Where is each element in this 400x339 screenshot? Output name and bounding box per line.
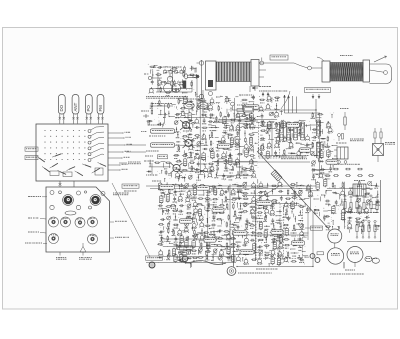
capacitor D245: [191, 217, 196, 222]
FM tuning capacitor knob: [63, 195, 74, 206]
resistor L340: [260, 196, 262, 202]
label ACC PO CADRE: [79, 257, 92, 260]
resistor D467: [374, 225, 380, 229]
wire junction L466: [369, 222, 370, 229]
resistor L424: [251, 259, 257, 261]
resistor L238: [212, 212, 218, 216]
resistor T429: [291, 261, 297, 263]
capacitor R276: [186, 236, 189, 241]
diode R24: [183, 127, 188, 132]
board to panel stub wires: [59, 181, 75, 187]
resistor L286: [178, 241, 182, 248]
resistor C349: [250, 206, 256, 210]
transistor T255: [199, 221, 204, 227]
value label tag 1: [245, 105, 259, 109]
wire junction C43: [195, 150, 201, 154]
wire rod1 to rod2: [294, 63, 308, 68]
control stage lower stray wires: [150, 161, 177, 182]
wire junction L244: [186, 216, 191, 220]
transistor D443: [340, 189, 345, 195]
resistor D59: [182, 169, 188, 171]
IF transformer R288: [191, 239, 195, 248]
IF transformer T51: [210, 150, 215, 159]
antenna coupling wire: [281, 91, 290, 109]
rod 1 left mount: [206, 61, 217, 96]
wire junction L346: [299, 199, 305, 200]
resistor T345: [291, 197, 297, 199]
capacitor R198: [173, 189, 177, 195]
capacitor T405: [242, 244, 247, 247]
label box REGLAGE A: [177, 246, 193, 250]
wire junction T363: [285, 208, 288, 215]
transistor R468: [224, 96, 229, 102]
transistor Q20: [194, 118, 199, 124]
resistor R228: [225, 203, 230, 210]
wire junction Q362: [276, 211, 282, 212]
resistor L184: [325, 175, 331, 179]
capacitor D485: [261, 114, 264, 119]
transistor C13: [181, 110, 186, 116]
right edge supply bus: [347, 180, 381, 242]
transistor L304: [219, 249, 224, 256]
capacitor T21: [202, 118, 206, 124]
wire junction T327: [297, 185, 304, 189]
resistor D191: [199, 185, 205, 189]
output module dashed box: [284, 206, 303, 259]
trimmer T45: [209, 148, 213, 152]
capacitor Q272: [160, 236, 165, 242]
capacitor L202: [206, 191, 211, 196]
transistor Q3 IF amp: [171, 163, 183, 173]
resistor D161: [311, 112, 316, 119]
resistor R78: [154, 162, 160, 164]
detector can column: [316, 120, 320, 161]
diode T3: [188, 100, 193, 105]
coax output to mixer: [185, 74, 200, 79]
thermistor disc pair: [365, 256, 380, 263]
capacitor R396: [250, 239, 255, 242]
capacitor T111: [216, 153, 219, 158]
transistor C49: [195, 153, 200, 159]
cable arrowhead: [178, 259, 182, 262]
resistor R480: [220, 111, 222, 117]
capacitor R366: [245, 218, 249, 224]
capacitor C25: [187, 125, 192, 131]
resistor R438: [341, 182, 345, 189]
transistor L418: [270, 249, 275, 256]
resistor L52: [176, 161, 182, 163]
resistor C1: [178, 98, 180, 104]
relay double-box label: [244, 107, 254, 113]
resistor L250: [158, 224, 164, 226]
resistor C103: [245, 137, 247, 143]
diode T99: [217, 141, 222, 146]
transistor L358: [250, 208, 255, 214]
capacitor R330: [258, 191, 263, 196]
resistor R162: [317, 114, 323, 116]
resistor C397: [258, 239, 264, 241]
resistor C319: [236, 185, 242, 189]
resistor R294: [230, 244, 236, 248]
diode L460: [347, 217, 352, 222]
wire junction Q332: [272, 189, 273, 195]
IF strip wiring bus: [215, 117, 257, 178]
resistor R54: [189, 162, 195, 164]
label ANT CAR: [305, 226, 323, 230]
wire junction T195: [232, 184, 238, 185]
resistor Q188: [178, 185, 184, 189]
resistor T75: [147, 120, 153, 122]
IF transformer C475: [243, 104, 246, 113]
resistor D509: [160, 87, 162, 93]
IF transformer R456: [358, 205, 363, 214]
transistor C121: [249, 158, 254, 164]
transistor T69: [207, 171, 212, 177]
resistor C265: [192, 229, 195, 236]
capacitor T375: [237, 225, 240, 230]
resistor T141: [275, 130, 281, 134]
capacitor L430: [299, 258, 304, 263]
resistor L292: [216, 245, 222, 247]
resistor Q224: [197, 203, 203, 205]
resistor D5: [200, 100, 206, 102]
transistor C211: [185, 196, 190, 202]
transistor R138: [296, 121, 301, 128]
transistor T63: [209, 165, 214, 172]
value label tag 12: [240, 250, 254, 254]
transistor C487: [274, 111, 279, 118]
transistor L64: [175, 171, 180, 178]
IF transformer L400: [279, 234, 283, 243]
resistor D293: [225, 242, 228, 249]
volume feed wire: [126, 145, 146, 152]
IF transformer R354: [291, 201, 295, 210]
resistor T279: [204, 236, 210, 238]
IF transformer D83: [223, 116, 226, 125]
label box TUNER T3: [25, 147, 38, 151]
wire junction R402: [294, 238, 295, 243]
wire junction Q374: [298, 220, 303, 224]
transistor R504: [157, 79, 162, 86]
wire junction R414: [243, 254, 249, 255]
IF module interior stray wires: [258, 120, 313, 159]
capacitor T231: [165, 209, 170, 214]
resistor C439: [357, 181, 362, 188]
transistor C457: [364, 207, 369, 214]
capacitor C247: [212, 215, 216, 221]
transistor R282: [226, 233, 231, 240]
detector output wiring bus: [306, 184, 320, 211]
IF transformer Q50: [201, 152, 205, 161]
value label tag 13: [271, 230, 283, 234]
capacitor R12: [175, 113, 180, 118]
feedback resistor row A: [333, 164, 363, 170]
panel middle trimmers: [50, 205, 92, 215]
resistor D107: [227, 146, 233, 150]
transistor C223: [193, 201, 198, 207]
label contrast: [144, 161, 154, 162]
resistor D47: [182, 155, 188, 157]
resistor L256: [205, 225, 211, 227]
resistor L502: [189, 74, 195, 76]
label ACC RO CADRE: [110, 237, 129, 238]
label RELAIS HT: [252, 86, 271, 89]
resistor C157: [282, 149, 287, 156]
diode D311: [187, 257, 192, 259]
resistor D215: [212, 198, 218, 202]
resistor D497: [182, 66, 185, 73]
label OSC FM: [28, 218, 46, 220]
wire junction C373: [295, 216, 296, 222]
resistor R420: [286, 251, 291, 258]
IF adjustment cores row: [49, 217, 98, 228]
capacitor R96: [236, 131, 240, 137]
wire junction Q212: [190, 196, 197, 200]
capacitor T447: [325, 200, 330, 205]
resistor T57: [208, 163, 214, 167]
resistor L220: [170, 205, 176, 209]
IF transformer D389: [264, 229, 268, 238]
value label tag 7: [197, 186, 210, 190]
capacitor C193: [211, 185, 216, 190]
capacitor D143: [298, 128, 303, 134]
resistor T489: [243, 124, 249, 128]
trimmer Q416: [259, 250, 263, 256]
transistor D455: [348, 206, 353, 213]
transistor L394: [299, 230, 304, 236]
wire junction L130: [228, 176, 235, 180]
HP resistor R50: [340, 108, 348, 130]
capacitor L118: [223, 159, 228, 164]
resistor R408: [264, 245, 270, 247]
IF transformer D155: [266, 150, 269, 159]
resistor C217: [231, 199, 237, 203]
speed control arrows: [312, 94, 320, 99]
wire junction D347: [238, 203, 242, 210]
capacitor D167: [312, 136, 317, 141]
resistor R72: [168, 103, 170, 109]
AF preamp stray wires: [158, 182, 240, 268]
wire junction R192: [206, 186, 211, 187]
transistor Q164: [326, 121, 331, 128]
wire junction Q158: [288, 152, 295, 153]
IF transformer R432: [316, 181, 319, 190]
trimmer Q176: [311, 161, 315, 167]
wire junction C259: [229, 224, 235, 228]
trimmer R384: [300, 224, 305, 230]
value label tag 14: [204, 238, 216, 242]
diode T177: [319, 160, 324, 162]
resistor Q500: [156, 74, 162, 76]
diode C19: [188, 119, 193, 124]
transistor L280: [212, 234, 217, 241]
capacitor T387: [251, 231, 256, 236]
resistor L34: [210, 131, 214, 138]
resistor R48: [189, 151, 193, 158]
grommet pair: [310, 252, 323, 263]
transistor C325: [277, 181, 282, 187]
transistor Q200: [187, 190, 192, 197]
capacitor Q92: [245, 123, 249, 129]
wire junction D371: [276, 220, 283, 224]
trimmer T87: [251, 118, 255, 124]
resistor D473: [274, 97, 280, 101]
label ANTENNE TELESCOPIQUE: [259, 91, 287, 92]
capacitor D257: [211, 224, 216, 229]
wire junction D23: [174, 127, 178, 133]
wire junction D77: [149, 160, 150, 167]
capacitor C343: [280, 196, 283, 201]
resistor L10: [203, 108, 209, 112]
trimmer T9: [197, 105, 201, 109]
capacitor L76: [157, 123, 162, 126]
label FM QB 70 M4: [25, 243, 47, 244]
transistor R246: [199, 214, 204, 221]
IF transformer L310: [179, 253, 183, 262]
resistor L178: [326, 160, 332, 164]
resistor C463: [325, 226, 331, 230]
label PM-152: [340, 55, 342, 56]
diode T105: [216, 147, 221, 152]
rod 1 terminal wires: [250, 58, 268, 93]
IF module dashed box: [259, 123, 280, 159]
transistor Q464: [347, 222, 352, 229]
AF output wire: [308, 212, 313, 266]
resistor L70: [150, 102, 153, 109]
IF transformer D101: [230, 137, 234, 146]
resistor R84: [230, 119, 236, 123]
wire junction R306: [232, 251, 238, 252]
IF transformer R426: [271, 256, 275, 265]
IF transformer D287: [184, 239, 188, 248]
resistor Q338: [243, 198, 249, 200]
capacitor D269: [218, 230, 223, 233]
wire junction T315: [211, 255, 214, 261]
capacitor T171: [321, 144, 325, 150]
resistor C415: [250, 252, 256, 254]
FM aerial input socket: [144, 74, 162, 80]
detector stage stray wires: [310, 113, 338, 185]
value label tag 8: [292, 241, 305, 245]
control stage lower wiring bus: [149, 163, 171, 174]
value label tag 11: [180, 219, 193, 223]
AF driver wiring bus: [239, 186, 303, 260]
label HORS PARLEUR METALLIQUE: [281, 157, 307, 160]
resistor L388: [257, 232, 263, 236]
FM tuner coil pair: [164, 84, 181, 93]
value label tag 9: [212, 208, 224, 212]
wire junction T381: [280, 222, 281, 230]
headphone jack: [227, 235, 236, 275]
wire junction C67: [196, 175, 201, 181]
IF transformer L208: [166, 193, 170, 202]
wire junction Q230: [162, 209, 163, 215]
wire junction C97: [244, 130, 245, 136]
capacitor T333: [278, 190, 283, 193]
resistor Q308: [166, 254, 170, 261]
transistor C433: [308, 190, 313, 197]
capacitor C181: [329, 166, 333, 172]
FM stage wiring: [146, 72, 203, 118]
resistor T417: [264, 254, 270, 258]
label ACC FO: [110, 221, 127, 222]
transistor Q2 IF amp: [183, 138, 195, 148]
capacitor D407: [258, 245, 263, 250]
resistor T411: [284, 244, 290, 248]
IF transformer L436: [323, 178, 327, 187]
wire junction C385: [238, 232, 239, 237]
trimmer Q440: [368, 181, 372, 185]
resistor D95: [227, 134, 233, 138]
capacitor C55: [197, 161, 200, 166]
resistor T219: [166, 206, 172, 208]
resistor T501: [183, 71, 185, 77]
mixer stage stray wires: [174, 98, 218, 182]
IF transformer Q236: [198, 208, 201, 217]
IF transformer C175: [327, 149, 330, 158]
capacitor L16: [209, 114, 214, 119]
wire junction T441: [374, 183, 378, 189]
resistor R342: [272, 200, 278, 202]
capacitor T495: [157, 66, 162, 69]
transistor R102: [234, 138, 239, 145]
transistor T159: [296, 150, 301, 156]
capacitor C241: [160, 218, 165, 221]
value label tag 4: [160, 185, 175, 189]
wire junction C199: [179, 190, 185, 194]
transistor Q152: [289, 141, 294, 148]
resistor Q170: [311, 142, 314, 149]
capacitor T81: [165, 170, 168, 175]
resistor T213: [198, 198, 204, 200]
resistor C505: [172, 80, 177, 87]
IF transformer D53: [183, 158, 187, 167]
wire junction L88: [214, 127, 219, 131]
transistor C295: [158, 249, 163, 255]
double tuned IF transformer ellipses: [183, 99, 208, 113]
IF transformer R378: [259, 221, 263, 230]
audio output bus: [236, 266, 313, 270]
capacitor Q470: [252, 95, 255, 100]
resistor D365: [236, 217, 242, 219]
IF transformer T309: [173, 254, 177, 263]
resistor L382: [283, 224, 289, 228]
trimmer R66: [188, 175, 192, 179]
IF transformer D203: [213, 187, 216, 196]
capacitor D233: [178, 210, 183, 215]
transistor R90: [229, 124, 234, 131]
transistor C361: [270, 209, 275, 216]
wire junction D125: [236, 166, 243, 167]
resistor T225: [207, 202, 211, 209]
resistor C7: [180, 108, 186, 112]
transistor T423: [243, 258, 248, 265]
resistor D383: [292, 224, 296, 231]
wire junction T39: [204, 139, 207, 146]
wire junction Q56: [201, 163, 208, 164]
wire junction C499: [152, 71, 153, 79]
board jumper components: [37, 154, 106, 176]
resistor R240: [233, 210, 237, 217]
resistor D359: [257, 212, 263, 216]
rod 2 right cap: [363, 60, 370, 82]
transistor T183: [318, 172, 323, 178]
capacitor L82: [214, 116, 219, 122]
front control stage wiring bus: [150, 104, 173, 124]
resistor R132: [243, 174, 249, 178]
wire junction Q8: [191, 105, 192, 111]
resistor L376: [244, 223, 248, 230]
